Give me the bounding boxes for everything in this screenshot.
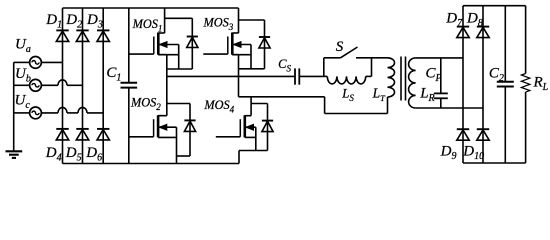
svg-text:C2: C2 — [489, 65, 504, 84]
svg-text:Ua: Ua — [15, 37, 31, 56]
svg-text:S: S — [336, 39, 344, 55]
svg-text:D7: D7 — [445, 10, 463, 29]
svg-text:MOS3: MOS3 — [203, 15, 234, 32]
svg-text:MOS1: MOS1 — [132, 17, 163, 34]
svg-text:Uc: Uc — [15, 93, 31, 112]
svg-text:D2: D2 — [65, 12, 82, 31]
svg-text:LT: LT — [372, 86, 387, 104]
svg-text:D10: D10 — [462, 144, 484, 163]
svg-text:C1: C1 — [106, 65, 121, 84]
svg-text:D3: D3 — [86, 12, 103, 31]
svg-text:D1: D1 — [45, 12, 62, 31]
svg-text:D4: D4 — [45, 145, 62, 164]
svg-text:CS: CS — [278, 57, 291, 74]
svg-text:MOS4: MOS4 — [203, 98, 234, 115]
svg-text:D5: D5 — [65, 145, 82, 164]
svg-text:CP: CP — [426, 65, 442, 84]
svg-text:LS: LS — [341, 87, 354, 104]
svg-text:Ub: Ub — [15, 66, 31, 85]
svg-text:D8: D8 — [466, 10, 483, 29]
svg-text:LR: LR — [419, 86, 434, 105]
svg-text:MOS2: MOS2 — [130, 96, 161, 113]
svg-text:RL: RL — [533, 75, 549, 94]
svg-text:D6: D6 — [85, 145, 102, 164]
svg-text:D9: D9 — [440, 144, 457, 163]
